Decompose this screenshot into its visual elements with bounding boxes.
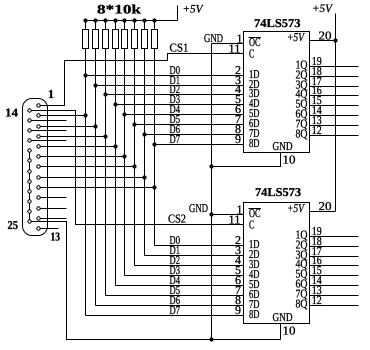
connector pin 10 [37,196,40,199]
connector pin 2 [37,114,40,117]
wire +5V vertical [335,14,337,212]
wire gnd chain pins 18-25 [29,151,31,222]
svg-text:14: 14 [5,106,18,120]
junction pin9-bit7 [152,185,156,189]
svg-text:12: 12 [312,123,322,137]
resistor R1 (10k) [85,21,87,30]
connector pin 4 [37,135,40,138]
junction pin2-bit0 [83,113,87,117]
junction U2 OC gnd [209,212,213,216]
wire CS2 (pin14 to IC2 pin11) [31,111,243,225]
connector pin 14 [28,109,31,112]
svg-text:12: 12 [312,293,322,307]
junction D2 bit [103,92,107,96]
wire pin5 to data bit 3 [40,146,115,148]
connector pin 18 [28,149,31,152]
svg-text:8Q: 8Q [296,297,308,311]
wire U1 pin1 OC to ground vertical [212,43,244,45]
resistor R5 (10k) [124,21,126,30]
wire U1 pin20 +5V [310,40,336,42]
junction bus-R6 [132,18,136,22]
connector pin 9 [37,186,40,189]
svg-text:74LS573: 74LS573 [255,185,301,199]
connector pin 22 [28,190,31,193]
wire pin10 stub [40,197,66,199]
junction U1 gnd [209,164,213,168]
svg-text:D7: D7 [170,132,181,146]
wire data bit 4 vertical (R5 to bus) [124,49,126,276]
svg-text:13: 13 [51,230,61,244]
svg-text:10: 10 [283,324,296,338]
wire CS1 (pin1 to IC1 pin11) [40,54,243,106]
junction bus-R7 [142,18,146,22]
wire U2 3Q output pin 17 [310,256,359,258]
wire U2 pin10 GND [280,324,282,340]
wire U2 pin20 +5V [310,211,336,213]
connector pin 12 [37,217,40,220]
svg-text:GND: GND [189,201,208,215]
junction pin7-bit5 [132,164,136,168]
wire U2 D6 line to pin 8 [96,305,244,307]
wire U1 1Q output pin 19 [310,66,359,68]
wire U2 D4 line to pin 6 [116,285,244,287]
resistor R6 (10k) [134,21,136,30]
wire U2 D5 line to pin 7 [106,295,244,297]
svg-text:CS2: CS2 [168,212,186,226]
svg-text:8*10k: 8*10k [97,2,142,17]
svg-text:C: C [249,218,255,232]
wire data bit 1 vertical (R2 to bus) [95,49,97,306]
label U2 OC with overline [249,208,262,210]
wire U2 6Q output pin 14 [310,285,359,287]
wire ground vertical [211,44,213,340]
wire pin8 to data bit 6 [40,177,144,179]
svg-text:+5V: +5V [287,201,305,215]
junction ground bus [209,337,213,341]
junction pin8-bit6 [142,175,146,179]
svg-text:+5V: +5V [183,4,205,16]
op IC U2 74LS573 box [244,203,310,324]
wire pin9 to data bit 7 [40,187,154,189]
svg-text:D7: D7 [170,303,181,317]
junction +5V pin20 [333,38,337,42]
junction D7 bit [152,142,156,146]
wire data bit 6 vertical (R7 to bus) [144,49,146,256]
junction pin6-bit4 [122,154,126,158]
svg-text:20: 20 [319,199,332,213]
wire data bit 0 vertical (R1 to bus) [85,49,87,316]
wire U1 D7 line to pin 9 [155,144,244,146]
junction bus-R1 [83,18,87,22]
wire pin15 stub [31,120,66,122]
wire pin25 to ground bus [31,222,280,340]
wire data bit 2 vertical (R3 to bus) [105,49,107,296]
svg-text:GND: GND [204,31,223,45]
wire pin17 stub [31,140,66,142]
svg-text:10: 10 [283,153,296,167]
resistor R3 (10k) [105,21,107,30]
wire data bit 7 vertical (R8 to bus) [154,49,156,246]
wire U1 D1 line to pin 3 [96,85,244,87]
connector pin 8 [37,176,40,179]
junction pin4-bit2 [103,134,107,138]
wire U1 D6 line to pin 8 [145,134,244,136]
junction D1 bit [93,83,97,87]
svg-text:+5V: +5V [312,3,334,15]
wire U2 8Q output pin 12 [310,305,359,307]
connector pin 25 [28,220,31,223]
wire U1 D5 line to pin 7 [135,124,244,126]
resistor R8 (10k) [154,21,156,30]
connector pin 16 [28,129,31,132]
junction D4 bit [122,112,126,116]
wire U2 D0 line to pin 2 [155,245,244,247]
wire U1 D0 line to pin 2 [86,75,244,77]
wire U1 2Q output pin 18 [310,76,359,78]
svg-text:9: 9 [235,132,241,146]
wire pin12 stub [40,218,66,220]
wire pin13 stub [40,228,58,230]
svg-text:+5V: +5V [287,30,305,44]
svg-text:8D: 8D [249,136,260,150]
junction pin5-bit3 [113,144,117,148]
wire U1 7Q output pin 13 [310,125,359,127]
junction D5 bit [132,122,136,126]
junction bus-R4 [113,18,117,22]
wire U1 5Q output pin 15 [310,105,359,107]
connector pin 13 [37,227,40,230]
connector pin 6 [37,155,40,158]
svg-text:20: 20 [319,29,332,43]
wire U1 4Q output pin 16 [310,95,359,97]
connector pin 5 [37,145,40,148]
connector pin 3 [37,125,40,128]
svg-text:GND: GND [273,139,293,153]
connector pin 1 [37,104,40,107]
wire U2 D1 line to pin 3 [145,255,244,257]
wire U1 D2 line to pin 4 [106,94,244,96]
wire U1 D3 line to pin 5 [116,104,244,106]
wire U1 6Q output pin 14 [310,115,359,117]
wire U2 D3 line to pin 5 [125,275,244,277]
connector pin 23 [28,200,31,203]
wire data bit 5 vertical (R6 to bus) [134,49,136,266]
junction bus-R8 [152,18,156,22]
resistor R2 (10k) [95,21,97,30]
wire U1 3Q output pin 17 [310,86,359,88]
svg-text:11: 11 [229,42,241,56]
connector pin 15 [28,119,31,122]
wire pin16 stub [31,130,66,132]
op IC U1 74LS573 box [244,32,310,153]
wire U2 1Q output pin 19 [310,236,359,238]
svg-text:C: C [249,47,255,61]
wire pin7 to data bit 5 [40,166,134,168]
svg-text:74LS573: 74LS573 [254,16,301,30]
junction D0 bit [83,73,87,77]
svg-text:8Q: 8Q [296,127,308,141]
resistor R4 (10k) [115,21,117,30]
wire data bit 3 vertical (R4 to bus) [115,49,117,286]
connector pin 20 [28,170,31,173]
wire U2 D2 line to pin 4 [135,265,244,267]
wire U2 7Q output pin 13 [310,295,359,297]
junction D6 bit [142,132,146,136]
resistor R7 (10k) [144,21,146,30]
wire pin11 stub [40,208,66,210]
junction bus-R5 [122,18,126,22]
wire pin4 to data bit 2 [40,136,105,138]
connector pin 11 [37,207,40,210]
wire U2 2Q output pin 18 [310,246,359,248]
label U1 OC with overline [249,37,262,39]
connector J1 DB25 shell [23,99,48,236]
connector pin 19 [28,159,31,162]
wire U2 pin1 OC to ground vertical [212,214,244,216]
wire U1 D4 line to pin 6 [125,114,244,116]
svg-text:1: 1 [48,87,54,101]
wire U1 pin10 GND [212,153,281,167]
wire U1 8Q output pin 12 [310,135,359,137]
svg-text:25: 25 [8,218,19,232]
wire pin3 to data bit 1 [40,126,95,128]
svg-text:9: 9 [235,303,241,317]
svg-text:CS1: CS1 [170,41,189,55]
junction bus-R3 [103,18,107,22]
svg-text:11: 11 [229,213,241,227]
connector pin 24 [28,210,31,213]
wire U2 D7 line to pin 9 [86,315,244,317]
wire +5V bus above resistors [86,20,178,22]
svg-text:GND: GND [273,310,293,324]
connector pin 7 [37,165,40,168]
svg-text:8D: 8D [249,307,260,321]
wire pin6 to data bit 4 [40,156,124,158]
connector pin 21 [28,180,31,183]
wire U2 5Q output pin 15 [310,275,359,277]
connector pin 17 [28,139,31,142]
junction pin3-bit1 [93,124,97,128]
wire pin2 to data bit 0 [40,115,85,117]
junction bus-R2 [93,18,97,22]
wire U2 4Q output pin 16 [310,265,359,267]
junction D3 bit [113,102,117,106]
